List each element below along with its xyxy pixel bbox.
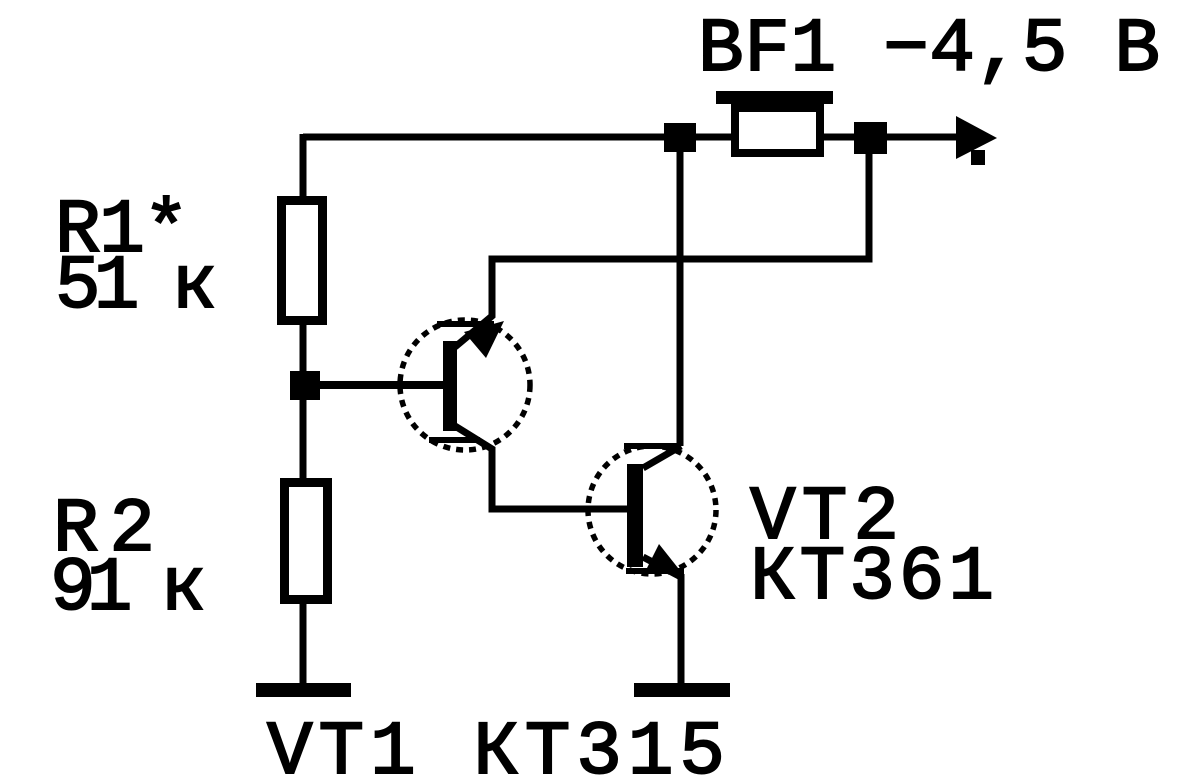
svg-text:51 к: 51 к xyxy=(55,244,217,330)
svg-text:КТ361: КТ361 xyxy=(750,535,994,621)
svg-text:91 к: 91 к xyxy=(50,546,206,632)
svg-text:VT1 КТ315: VT1 КТ315 xyxy=(267,710,725,778)
svg-text:BF1 −4,5 В: BF1 −4,5 В xyxy=(698,7,1160,93)
